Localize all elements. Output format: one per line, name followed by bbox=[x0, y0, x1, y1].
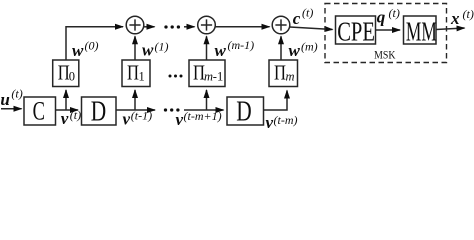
svg-text:C: C bbox=[33, 96, 45, 125]
svg-text:v: v bbox=[123, 110, 131, 129]
svg-text:Π: Π bbox=[127, 62, 139, 85]
svg-text:(m): (m) bbox=[301, 40, 318, 54]
svg-text:1: 1 bbox=[139, 70, 145, 84]
svg-text:v: v bbox=[61, 109, 69, 128]
svg-text:MM: MM bbox=[406, 17, 437, 47]
svg-text:-1: -1 bbox=[213, 70, 223, 84]
svg-text:(t-1): (t-1) bbox=[131, 109, 152, 123]
svg-text:CPE: CPE bbox=[337, 17, 375, 47]
svg-text:(m-1): (m-1) bbox=[228, 38, 255, 52]
svg-text:(t): (t) bbox=[302, 6, 313, 20]
svg-text:m: m bbox=[286, 70, 295, 84]
svg-text:u: u bbox=[0, 90, 9, 109]
svg-text:m: m bbox=[204, 70, 213, 84]
svg-text:v: v bbox=[176, 110, 184, 129]
svg-text:(1): (1) bbox=[155, 40, 169, 54]
svg-text:v: v bbox=[266, 113, 274, 131]
svg-text:w: w bbox=[72, 41, 84, 60]
svg-text:(t): (t) bbox=[463, 7, 474, 21]
svg-text:(t): (t) bbox=[70, 108, 81, 122]
svg-text:w: w bbox=[289, 41, 301, 60]
svg-text:Π: Π bbox=[274, 62, 286, 85]
svg-text:(t-m+1): (t-m+1) bbox=[184, 109, 222, 123]
svg-text:c: c bbox=[293, 9, 301, 28]
svg-text:w: w bbox=[215, 41, 227, 60]
svg-text:0: 0 bbox=[69, 70, 75, 84]
svg-text:D: D bbox=[236, 97, 251, 127]
svg-text:w: w bbox=[142, 41, 154, 60]
svg-text:q: q bbox=[377, 8, 386, 27]
svg-text:(t): (t) bbox=[11, 87, 22, 101]
svg-text:(t): (t) bbox=[389, 6, 400, 20]
svg-text:MSK: MSK bbox=[374, 48, 395, 61]
svg-text:(0): (0) bbox=[85, 39, 99, 53]
svg-text:(t-m): (t-m) bbox=[274, 113, 298, 127]
svg-text:D: D bbox=[91, 97, 106, 127]
svg-text:x: x bbox=[450, 9, 460, 28]
